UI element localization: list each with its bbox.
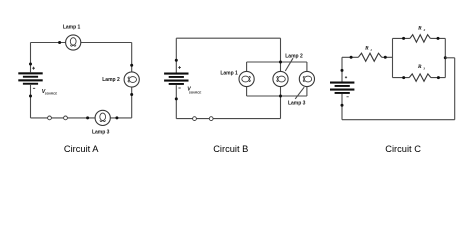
wire: A left side — [30, 43, 32, 118]
svg-text:R: R — [417, 26, 422, 32]
lamp L2 circuit B — [273, 71, 288, 86]
label: battery A plus sign — [32, 67, 35, 70]
node: battery C positive terminal dot — [341, 69, 344, 72]
node: battery A positive terminal dot — [29, 63, 32, 66]
node: junction dot right of R3 — [437, 76, 440, 79]
lamp L1 circuit A — [66, 35, 81, 50]
wire: A top side — [31, 42, 132, 44]
wire: C bottom side — [342, 119, 455, 121]
node: junction dot bank bottom — [279, 95, 282, 98]
svg-text:Lamp 1: Lamp 1 — [63, 24, 81, 30]
wire: B left side — [175, 38, 177, 118]
node: junction dot left of Lamp 3 — [86, 116, 89, 119]
wire: exit stub — [445, 57, 454, 59]
wire: parallel box left edge — [392, 38, 394, 77]
node: junction dot above Lamp 2 — [130, 64, 133, 67]
lamp L3 circuit B — [299, 71, 314, 86]
node: junction dot box right mid — [444, 56, 447, 59]
label: battery B minus sign — [178, 87, 180, 89]
node: junction dot left of R1 — [350, 56, 353, 59]
node: battery B negative terminal dot — [175, 97, 178, 100]
svg-text:R: R — [417, 64, 422, 70]
wire: left branch (Lamp 1) — [246, 62, 248, 96]
wire: B return drop from bank — [280, 96, 282, 119]
wire: B top side — [176, 37, 280, 39]
svg-text:Circuit C: Circuit C — [385, 144, 421, 154]
node: junction dot right of R1 — [384, 56, 387, 59]
svg-text:Lamp 2: Lamp 2 — [285, 53, 303, 59]
node: junction dot right of Lamp 3 — [115, 116, 118, 119]
svg-text:Lamp 1: Lamp 1 — [220, 70, 238, 76]
resistor R2 — [410, 35, 431, 42]
wire: C right side — [454, 58, 456, 120]
svg-text:SOURCE: SOURCE — [45, 91, 57, 95]
switch terminal circle 2 on A bottom wire — [64, 116, 68, 120]
node: battery A negative terminal dot — [29, 95, 32, 98]
wire: bottom branch — [393, 77, 446, 79]
switch terminal circle 1 on A bottom wire — [48, 116, 52, 120]
wire: parallel bank bottom rail — [247, 95, 307, 97]
node: junction dot left of R2 — [402, 37, 405, 40]
resistor R3 — [409, 74, 431, 81]
switch terminal circle 2 on B bottom wire — [209, 117, 213, 121]
svg-text:Circuit A: Circuit A — [64, 144, 99, 154]
battery VSOURCE circuit B — [164, 73, 188, 85]
resistor R1 — [358, 53, 381, 61]
svg-text:SOURCE: SOURCE — [189, 91, 201, 95]
wire: A bottom side — [31, 117, 132, 119]
battery circuit C — [330, 82, 354, 94]
svg-text:Lamp 3: Lamp 3 — [288, 101, 306, 107]
leader line to Lamp 2 — [285, 58, 293, 71]
node: junction dot left of Lamp 1 — [58, 41, 61, 44]
node: junction dot bank top — [279, 61, 282, 64]
svg-text:Lamp 2: Lamp 2 — [102, 77, 120, 83]
label: battery A minus sign — [33, 87, 35, 89]
wire: middle branch (Lamp 2) — [280, 62, 282, 96]
svg-text:2: 2 — [423, 28, 426, 32]
node: battery C negative terminal dot — [341, 104, 344, 107]
lamp L1 circuit B — [239, 71, 254, 86]
leader line to Lamp 3 — [295, 87, 304, 99]
svg-text:1: 1 — [370, 48, 372, 52]
lamp L2 circuit A — [124, 72, 139, 87]
lamp L3 circuit A — [95, 110, 110, 125]
wire: parallel box right edge — [444, 38, 446, 77]
node: junction dot right of R2 — [437, 37, 440, 40]
wire: B bottom side — [176, 118, 280, 120]
wire: B feed drop to parallel bank — [280, 38, 282, 62]
svg-text:Lamp 3: Lamp 3 — [92, 129, 110, 135]
node: junction dot left of R3 — [402, 76, 405, 79]
svg-text:R: R — [364, 46, 369, 52]
switch terminal circle 1 on B bottom wire — [193, 117, 197, 121]
battery VSOURCE circuit A — [18, 72, 42, 84]
wire: top branch — [393, 37, 446, 39]
node: battery B positive terminal dot — [175, 59, 178, 62]
label: battery C plus sign — [345, 76, 347, 78]
label: battery B plus sign — [178, 66, 181, 69]
node: junction dot below Lamp 2 — [130, 93, 133, 96]
label: battery C minus sign — [347, 96, 349, 98]
svg-text:3: 3 — [422, 67, 425, 71]
wire: right branch (Lamp 3) — [306, 62, 308, 96]
wire: C top side — [342, 56, 393, 58]
svg-text:Circuit B: Circuit B — [213, 144, 248, 154]
wire: parallel bank top rail — [247, 61, 307, 63]
wire: C left side — [341, 57, 343, 119]
wire: A right side — [131, 43, 133, 118]
